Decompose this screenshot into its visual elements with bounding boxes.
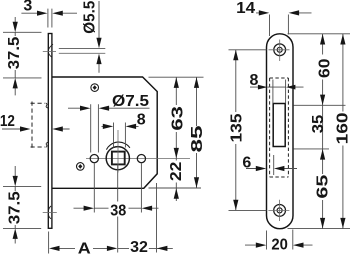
dimension 37.5 bottom label (rotated): [8, 191, 21, 225]
dimension 85 label (rotated): [190, 126, 203, 153]
case right edge extension line: [156, 183, 158, 253]
dimension 14 extension lines: [270, 15, 289, 37]
faceplate (front view, rounded ends): [267, 34, 294, 229]
dimension 135 reference lines: [229, 50, 267, 211]
dimension Ø7.5 extension lines: [91, 104, 99, 152]
svg-text:22: 22: [168, 162, 185, 182]
dimension 63/85 bottom reference line: [149, 187, 202, 189]
dimension 135 line: [235, 50, 237, 211]
svg-text:160: 160: [335, 112, 350, 144]
spindle extension line to bottom row: [117, 165, 119, 253]
hole centre line (horizontal): [86, 158, 190, 160]
magnet housing dashed box: [31, 102, 46, 148]
dimension 65 arrowheads: [320, 149, 325, 160]
svg-text:A: A: [78, 240, 91, 256]
dimension Ø5.5 arrowheads: [96, 38, 101, 49]
latch opening: [273, 104, 285, 147]
dimension 135 label (rotated): [230, 112, 243, 144]
dimension 135 arrowheads: [233, 50, 238, 61]
dimension 65 label (rotated): [316, 174, 329, 200]
top screw hole: [274, 44, 286, 56]
svg-text:20: 20: [271, 237, 288, 254]
svg-text:14: 14: [236, 0, 255, 17]
dimension 12 arrowheads: [20, 126, 31, 131]
bottom screw hole: [274, 205, 286, 217]
dimension 22 label (rotated): [170, 161, 183, 183]
dimension 8 (plate) extension lines: [273, 80, 286, 104]
svg-text:65: 65: [315, 174, 332, 198]
dimension 8 arrowheads: [103, 124, 114, 129]
dimension Ø5.5 lines: [98, 1, 100, 73]
right view opening-top reference line: [293, 104, 345, 106]
magnet housing break hook (top): [46, 103, 49, 108]
svg-text:32: 32: [130, 239, 148, 256]
follower cam arc: [106, 142, 129, 150]
dimension 8 extension lines: [114, 123, 126, 148]
dimension 3 arrowheads: [37, 11, 48, 16]
dimension 22 line and outside arrow: [175, 159, 177, 201]
dimension 6 extension line: [273, 155, 275, 175]
top screw crosshair: [269, 40, 290, 62]
dimension 63 arrowheads: [174, 77, 179, 88]
faceplate screw countersink (top) center line: [43, 50, 56, 52]
svg-text:12: 12: [0, 113, 15, 130]
dimension 160 line: [342, 34, 344, 229]
magnet housing hidden lines (dashed): [270, 78, 289, 177]
dimension 38 arrowheads: [84, 206, 95, 211]
magnet housing break hook (bottom): [46, 142, 49, 147]
dimension 37.5 bottom line: [14, 166, 16, 244]
dimension 60 arrowheads: [320, 34, 325, 45]
svg-text:8: 8: [250, 72, 259, 89]
dimension 37.5 top reference lines: [3, 32, 42, 78]
dimension 37.5 top line: [14, 17, 16, 95]
dimension 63 label (rotated): [170, 105, 183, 132]
case screw mark: [91, 84, 99, 92]
dimension 14 lines: [256, 12, 312, 14]
dimension 8 lines: [102, 125, 139, 127]
dimension 60 line: [322, 34, 324, 106]
lock case outline: [52, 77, 157, 188]
svg-text:37.5: 37.5: [6, 191, 23, 224]
svg-text:85: 85: [189, 125, 206, 152]
svg-text:37.5: 37.5: [6, 37, 23, 70]
spindle square hole: [112, 152, 125, 165]
dimension 3 lines: [21, 12, 77, 14]
dimension 20 extension lines: [267, 230, 293, 250]
svg-text:35: 35: [310, 115, 327, 134]
svg-text:6: 6: [242, 154, 251, 171]
dimension A line: [59, 247, 107, 249]
svg-text:135: 135: [229, 113, 246, 142]
dimension 60 label (rotated): [316, 55, 329, 80]
case screw mark 2: [77, 163, 85, 171]
faceplate extension line to bottom row: [48, 232, 50, 254]
faceplate screw countersink (top) edge marks: [49, 44, 53, 57]
Ø5.5 hole lines: [59, 49, 106, 54]
svg-text:Ø5.5: Ø5.5: [82, 1, 99, 34]
svg-text:63: 63: [170, 106, 187, 131]
dimension 38 label: [109, 203, 129, 215]
dimension 37.5 top label (rotated): [8, 36, 21, 70]
svg-text:Ø7.5: Ø7.5: [112, 93, 149, 110]
dimension Ø7.5 arrowheads: [80, 106, 91, 111]
dimension 12 line: [2, 128, 70, 130]
dimension 32 line and outside arrow: [118, 247, 173, 249]
dimension 32 label: [130, 241, 148, 252]
faceplate (side view): [48, 34, 52, 229]
svg-text:38: 38: [110, 202, 126, 219]
dimension 38 extension lines: [94, 164, 141, 213]
right fixing hole: [137, 155, 145, 163]
dimension 20 arrowheads: [256, 243, 266, 248]
dimension Ø7.5 lines: [68, 107, 150, 109]
dimension 85 line: [196, 77, 198, 188]
right view opening-bottom reference line: [293, 148, 329, 150]
dimension 160 label (rotated): [336, 112, 349, 146]
dimension A arrowheads: [49, 246, 60, 251]
dimension 35 line: [322, 105, 324, 149]
dimension 6 lines: [246, 168, 297, 170]
svg-text:8: 8: [137, 111, 146, 128]
right view top reference line: [288, 33, 350, 35]
dimension 38 lines: [74, 207, 159, 209]
bottom screw crosshair: [268, 200, 289, 221]
svg-text:3: 3: [23, 0, 32, 15]
dimension 8 (plate) lines: [250, 86, 304, 88]
dimension 20 lines: [245, 244, 313, 246]
faceplate screw countersink (bottom) center line: [43, 212, 57, 214]
dimension 8 (plate) arrowheads: [258, 85, 268, 90]
dimension 37.5 top arrowheads: [13, 22, 18, 33]
dimension 37.5 bottom reference lines: [3, 186, 41, 228]
dimension 85 arrowheads: [194, 77, 199, 88]
dimension 65 line: [322, 149, 324, 229]
spindle vertical centre line: [117, 130, 119, 173]
dimension 3 extension lines: [48, 9, 52, 28]
dimension 37.5 bottom arrowheads: [13, 176, 18, 187]
right view bottom reference line: [288, 228, 350, 230]
dimension 160 arrowheads: [340, 34, 345, 45]
dimension 14 arrowheads: [259, 10, 270, 15]
dimension 63/85 top reference line: [149, 76, 204, 78]
left fixing hole: [90, 155, 98, 163]
faceplate screw countersink (bottom) edge marks: [49, 206, 52, 219]
spindle follower circle: [106, 147, 129, 170]
svg-text:60: 60: [316, 58, 333, 78]
dimension 6 arrowheads: [256, 166, 266, 171]
dimension 63 line: [175, 77, 177, 158]
